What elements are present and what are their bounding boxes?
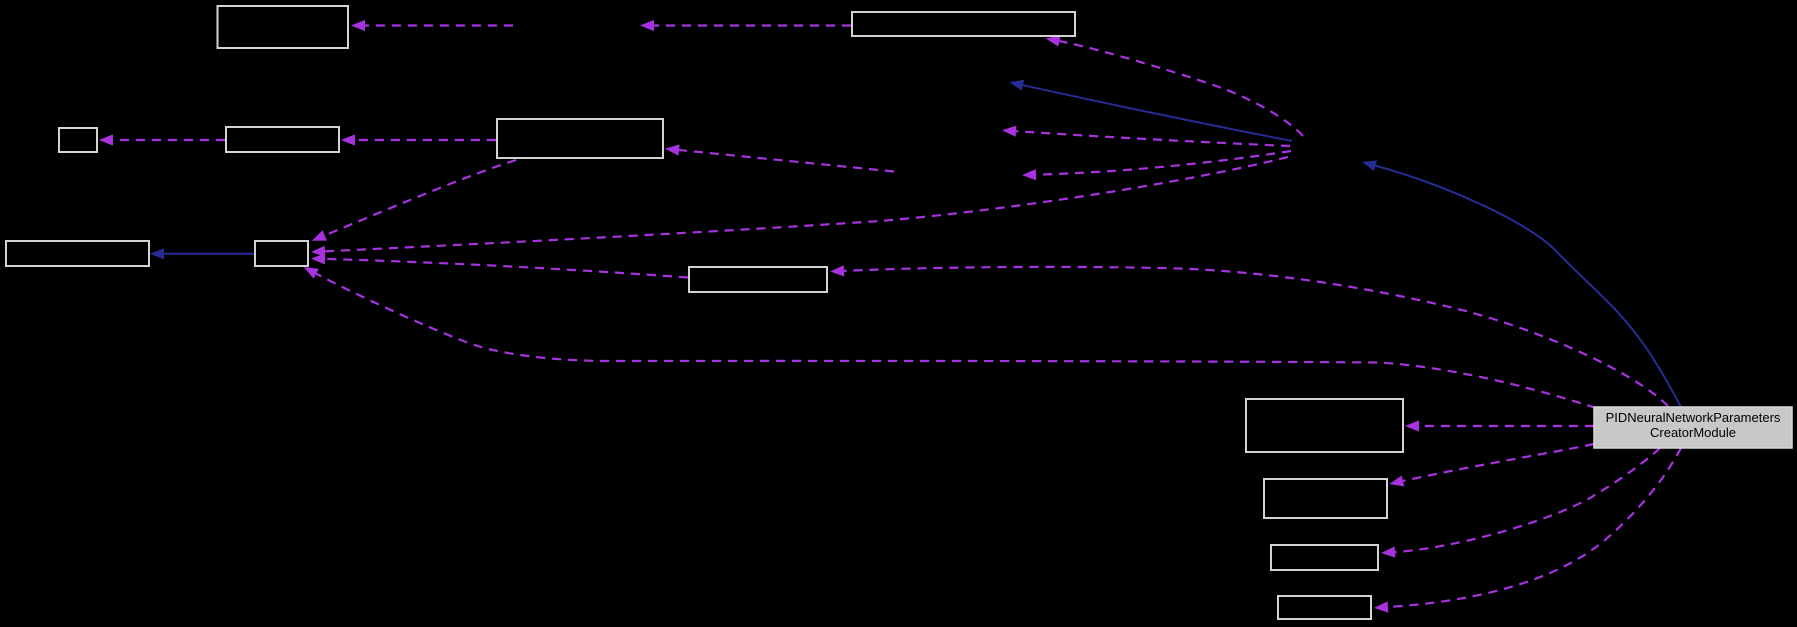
wire: dashed edge grey module box to box C	[1395, 448, 1660, 552]
wire: dashed edge grey module box to box D	[1388, 448, 1681, 607]
wire: dashed edge box5 to box4	[355, 139, 496, 141]
node box7	[255, 241, 308, 266]
node box A	[1246, 399, 1403, 452]
node box3	[59, 128, 97, 152]
node PIDNeuralNetworkParametersCreatorModule (highlighted grey)	[1594, 407, 1792, 448]
node box5	[497, 119, 663, 158]
node box D	[1278, 596, 1371, 619]
wire: long dashed edge grey module box to box8	[844, 267, 1668, 406]
wire: blue solid edge grey module box to node B	[1376, 166, 1682, 407]
node box B	[1264, 479, 1387, 518]
wire: dashed edge node B to invisible node C	[1036, 151, 1291, 175]
wire: dashed edge box2 to invisible node A	[654, 24, 851, 26]
wire: long dashed edge grey module box to box7 bottom	[316, 274, 1596, 408]
wire: dashed edge invisible node C to box5	[679, 150, 894, 172]
wire: dashed edge box5 to box7	[325, 160, 516, 235]
wire: long dashed edge node B to box7 right	[325, 157, 1288, 251]
wire: blue solid edge box7 to box6	[164, 253, 254, 255]
wire: blue solid edge node B to invisible node D	[1023, 85, 1292, 141]
node box1	[218, 6, 349, 48]
node box2	[852, 12, 1075, 36]
wire: dashed edge node B to invisible node E	[1016, 131, 1290, 146]
node box4	[226, 127, 339, 152]
node box8	[689, 267, 827, 292]
svg-text:PIDNeuralNetworkParameters: PIDNeuralNetworkParameters	[1606, 410, 1781, 425]
wire: dashed edge box4 to box3	[113, 139, 225, 141]
node box C	[1271, 545, 1378, 570]
wire: dashed edge grey module box to box A	[1419, 425, 1594, 427]
wire: dashed edge box8 to box7	[325, 259, 688, 278]
wire: dashed edge grey module box to box B	[1403, 444, 1594, 481]
svg-text:CreatorModule: CreatorModule	[1650, 425, 1736, 440]
node box6	[6, 241, 149, 266]
wire: dashed edge node B to box2 corner	[1059, 41, 1303, 136]
wire: dashed edge invisible node A to box1	[365, 24, 513, 26]
